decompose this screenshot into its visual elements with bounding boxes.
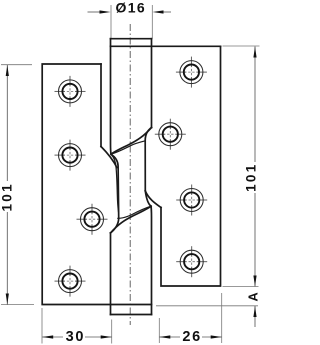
svg-text:101: 101 bbox=[0, 182, 15, 211]
svg-text:Ø16: Ø16 bbox=[115, 0, 146, 16]
svg-text:26: 26 bbox=[182, 329, 202, 345]
svg-text:30: 30 bbox=[66, 329, 86, 345]
svg-text:A: A bbox=[246, 292, 261, 302]
svg-text:101: 101 bbox=[243, 162, 258, 191]
